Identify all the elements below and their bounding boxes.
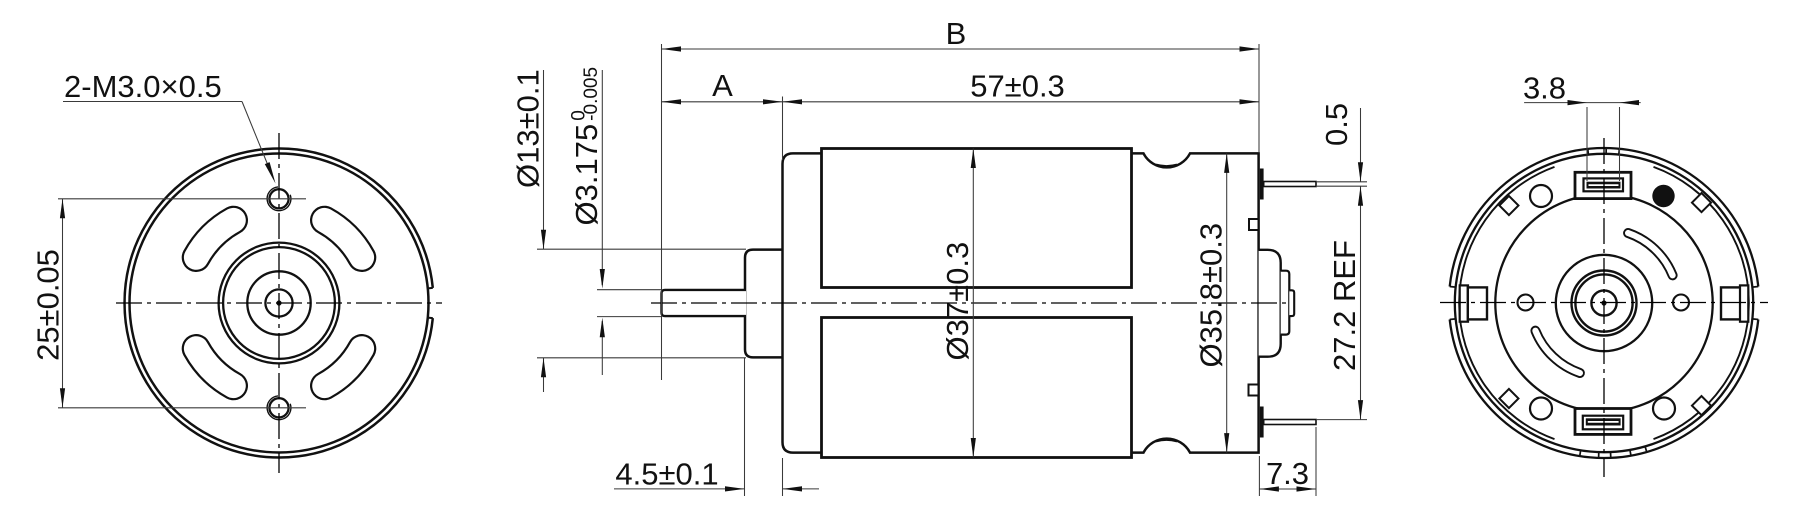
rear can section with crimp scallops [1132,153,1259,452]
d13 extension lines [537,248,746,250]
rear marker dot (filled) [1652,185,1674,207]
rear terminal bottom [1575,409,1631,435]
front view centre boss inner circle (d13) [223,247,335,359]
rear vent arc bottom-left [1535,331,1580,373]
rear view horizontal centreline [1440,302,1768,304]
end cap circle [1495,194,1712,411]
rear terminal top [1575,172,1631,198]
front view shaft centre dot [276,300,281,305]
rim gap connector ticks [1450,287,1759,320]
dimension 25±0.05 line [62,199,64,408]
svg-text:25±0.05: 25±0.05 [31,249,66,361]
svg-text:3.8: 3.8 [1523,71,1566,106]
rim knurl ticks [1580,148,1647,458]
mounting hole top (M3) [269,189,288,208]
extension line through top hole [58,198,306,200]
terminal blade bottom [1264,420,1316,425]
extension line boss front face [744,358,746,496]
side view: motor body [511,16,1368,496]
svg-text:Ø13±0.1: Ø13±0.1 [511,69,546,188]
mounting hole bottom (M3) [269,398,288,417]
rear view: end cap [1440,71,1768,478]
rear bearing boss step 1 [1259,250,1281,357]
svg-text:Ø35.8±0.3: Ø35.8±0.3 [1194,223,1229,368]
dimension 0.5 [1360,108,1362,182]
brush ear 9 oclock [1460,285,1468,321]
rear rim circles [1450,148,1759,287]
front end bell [783,153,823,452]
dimension d35.8±0.3 [1226,153,1228,452]
extension line at end cap face [1258,44,1260,152]
rim tabs (rotated squares) [1499,196,1518,215]
front view shaft circle (d3.175) [265,289,292,316]
svg-text:B: B [946,16,967,51]
dimension 3.8 [1524,102,1641,104]
can upper half (d37) [822,149,1132,288]
svg-text:57±0.3: 57±0.3 [970,69,1065,104]
rear vent arc top-right [1628,233,1673,275]
7.3 extension lines [1258,456,1260,496]
front view vent slots (4 kidney slots) [325,220,362,257]
dimension d13±0.1 [543,70,545,249]
extension line through bottom hole [58,407,306,409]
dimension d37±0.3 [972,149,974,458]
crimp tab top [1249,219,1259,230]
extension line at shaft tip [661,44,663,380]
dimension B line [662,48,1260,50]
svg-text:2-M3.0×0.5: 2-M3.0×0.5 [64,69,222,104]
rear bearing boss step 3 [1289,290,1294,316]
notch edge ticks [428,287,433,290]
shaft (d3.175) [662,290,747,316]
front view vertical centreline [278,133,280,473]
front bushing boss (d13) [745,250,783,358]
terminal base bottom [1260,407,1264,438]
dimension A / 57 line [662,101,1260,103]
svg-text:A: A [712,68,733,103]
front view outer circle (can OD, notched at 3 oclock) [125,148,433,457]
svg-text:7.3: 7.3 [1266,456,1309,491]
extension line at body front [782,97,784,161]
front view centre boss outer circle [219,243,340,364]
crimp scallop inner arc bottom [1156,440,1177,441]
rear view vertical centreline [1603,138,1605,477]
can lower half (d37) [822,318,1132,458]
brush ear 3 oclock [1721,287,1740,319]
dimension 3.8 extension lines [1586,107,1588,181]
svg-text:27.2 REF: 27.2 REF [1327,240,1362,371]
rear bearing boss circles [1556,255,1652,351]
rear shaft hole [1591,290,1616,315]
front view bearing circle [247,271,310,334]
dimension d3.175 [601,70,603,285]
rear bearing boss step 2 [1281,271,1290,335]
front view inner rim circle (d35.8) [130,154,429,453]
front view horizontal centreline [116,302,442,304]
dimension 7.3 [1259,488,1316,490]
crimp tab bottom [1249,385,1259,396]
front view: motor face [31,69,443,473]
d3.175 extension lines [597,289,661,291]
rear holes [1530,185,1552,207]
side view centreline [651,302,1290,304]
crimp scallop inner arc top [1156,165,1177,166]
svg-text:4.5±0.1: 4.5±0.1 [615,457,718,492]
svg-text:Ø37±0.3: Ø37±0.3 [940,242,975,361]
terminal base top [1260,169,1264,200]
blade thickness extension lines [1317,181,1367,183]
dimension 27.2 REF [1360,186,1362,419]
svg-text:0.5: 0.5 [1319,103,1354,146]
terminal blade top [1264,182,1316,187]
rear side holes [1518,295,1534,311]
